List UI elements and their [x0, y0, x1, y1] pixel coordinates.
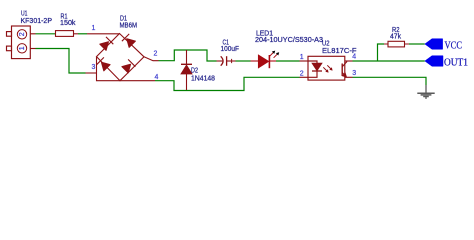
svg-text:U2: U2 [322, 41, 330, 48]
wire R2 to VCC [409, 43, 425, 45]
svg-text:150k: 150k [60, 20, 76, 27]
svg-text:KF301-2P: KF301-2P [21, 18, 53, 25]
svg-text:3: 3 [352, 70, 356, 77]
opto emitter arrowhead [343, 73, 347, 77]
wire conn pin1 to R1 [36, 33, 56, 35]
connector U1 [7, 26, 36, 59]
capacitor C1 [217, 56, 236, 66]
svg-text:2: 2 [19, 32, 26, 36]
port OUT1 [425, 56, 443, 67]
wire opto pin4 to OUT1 with R2 branch [353, 44, 425, 61]
svg-text:D1: D1 [120, 16, 127, 23]
opto LED triangle [312, 63, 322, 70]
svg-text:1: 1 [19, 46, 26, 50]
svg-text:3: 3 [92, 64, 96, 71]
ground [417, 85, 434, 98]
wire R1 to bridge [78, 33, 87, 35]
svg-text:VCC: VCC [445, 41, 463, 52]
svg-text:1: 1 [92, 25, 96, 32]
svg-text:OUT1: OUT1 [444, 58, 468, 69]
svg-text:1N4148: 1N4148 [191, 76, 215, 83]
optocoupler U2 [300, 56, 353, 80]
svg-text:MB6M: MB6M [120, 23, 138, 30]
svg-text:U1: U1 [21, 11, 28, 18]
wire bridge pin2 to C1 (jog over D2) [159, 50, 217, 61]
svg-text:1: 1 [300, 54, 304, 61]
svg-text:D2: D2 [191, 68, 198, 75]
resistor R1 [56, 31, 79, 37]
svg-text:2: 2 [300, 71, 304, 78]
wire C1 to LED1 [236, 60, 251, 62]
bridge rectifier D1 [87, 34, 159, 81]
wire LED1 to opto pin1 [276, 60, 300, 62]
svg-text:4: 4 [155, 74, 159, 81]
diode D2 [181, 50, 192, 90]
wire opto pin3 to ground [353, 77, 427, 85]
svg-text:204-10UYC/S530-A3: 204-10UYC/S530-A3 [255, 37, 323, 44]
opto light arrowheads [325, 69, 328, 72]
resistor R2 [384, 41, 409, 47]
wire conn pin2 to bridge pin3 [36, 49, 97, 74]
port VCC [425, 39, 443, 50]
LED LED1 [251, 51, 280, 69]
svg-text:4: 4 [352, 54, 356, 61]
svg-text:100uF: 100uF [221, 46, 240, 53]
svg-text:2: 2 [154, 51, 158, 58]
svg-text:47k: 47k [390, 33, 401, 40]
wire bridge pin4 bottom rail to opto pin2 [155, 77, 300, 90]
